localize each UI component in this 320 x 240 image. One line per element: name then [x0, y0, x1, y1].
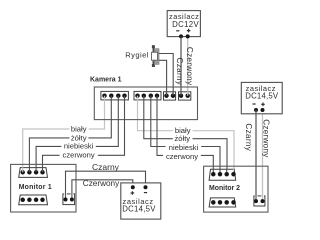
wire Rygiel bottom to camera strip3 pin1: [159, 60, 167, 95]
terminal dots S2: [135, 93, 159, 98]
terminal dots S3: [164, 93, 175, 98]
minus symbol PS2: [144, 192, 147, 194]
svg-text:Czarny: Czarny: [92, 162, 120, 172]
Monitor 1 box: [11, 164, 76, 212]
svg-text:Czerwony: Czerwony: [83, 179, 120, 188]
Monitor 2 bottom strip: [209, 198, 236, 207]
Monitor 1 top strip: [19, 168, 48, 178]
terminal strip S3 in camera (rygiel): [164, 92, 176, 100]
Monitor 1 bottom strip: [19, 195, 48, 205]
camera box Kamera 1: [94, 87, 197, 120]
wire Czarny Monitor 1 power to PS2 minus: [66, 171, 146, 199]
svg-text:niebieski: niebieski: [64, 142, 94, 151]
Monitor 2 bottom strip dots: [211, 200, 236, 205]
terminal dot PS3 plus: [261, 108, 265, 112]
svg-text:biały: biały: [71, 125, 87, 134]
svg-text:czerwony: czerwony: [63, 151, 95, 160]
Monitor 1 power strip top notches: [64, 193, 67, 196]
svg-text:DC14,5V: DC14,5V: [122, 204, 156, 213]
minus symbol PS3: [252, 103, 255, 105]
svg-text:Czarny: Czarny: [244, 123, 253, 151]
Monitor 2 power strip: [254, 196, 265, 206]
Monitor 1 power strip entry stubs: [66, 193, 72, 200]
wire stubs inside camera strips (light): [105, 91, 188, 100]
svg-text:Czerwony: Czerwony: [185, 47, 194, 86]
terminal dot PS2 plus: [131, 185, 135, 189]
svg-text:czerwony: czerwony: [166, 152, 198, 161]
svg-text:żółty: żółty: [174, 134, 190, 143]
svg-text:niebieski: niebieski: [169, 143, 199, 152]
svg-text:Monitor 1: Monitor 1: [19, 184, 52, 191]
Monitor 1 top strip dots: [20, 170, 44, 175]
terminal strip S1 in camera: [101, 91, 128, 100]
svg-text:Rygiel: Rygiel: [125, 51, 149, 60]
wire czerwony camera strip1 pin4 to Monitor 1 pin4: [43, 96, 125, 172]
svg-text:Monitor 2: Monitor 2: [209, 185, 240, 192]
wire Czerwony (light) power supply PS3 to Monitor 2 power pin2: [262, 110, 264, 201]
plus symbol PS3: [261, 103, 265, 107]
terminal dot PS3 minus: [254, 108, 258, 112]
terminal dots S1: [102, 93, 127, 98]
svg-text:Czarny: Czarny: [175, 58, 184, 86]
wire Czarny PS1 to camera strip4 pin1: [180, 37, 182, 96]
wire żółty camera strip1 pin2 to Monitor 1 pin2: [29, 96, 111, 172]
Monitor 2 top strip: [209, 169, 236, 180]
Monitor 2 power strip entry stubs: [255, 195, 257, 201]
power supply PS3 zasilacz DC14,5V right: [241, 82, 282, 113]
wire Czarny PS3 to Monitor 2 power pin1: [255, 110, 257, 201]
terminal strip S2 in camera: [134, 91, 161, 100]
power supply PS1 zasilacz DC12V: [167, 11, 200, 37]
electric strike Rygiel symbol: [152, 45, 160, 67]
Monitor 2 box: [204, 166, 268, 212]
terminal dot PS1 minus: [179, 34, 183, 38]
Monitor 2 top strip entry stubs: [213, 169, 226, 174]
terminal dot PS1 plus: [186, 34, 190, 38]
plus symbol PS1: [187, 29, 191, 33]
wire Czerwony Monitor 1 power to PS2 plus: [72, 180, 133, 199]
wire niebieski camera strip2 pin3 to Monitor 2 pin2: [151, 96, 220, 174]
wire żółty camera strip2 pin2 to Monitor 2 pin3: [144, 96, 227, 174]
wire stubs into Monitor 1 top strip: [29, 167, 42, 172]
wire czerwony camera strip2 pin4 to Monitor 2 pin1: [157, 96, 213, 174]
Monitor 2 power strip top notches: [255, 195, 258, 197]
Monitor 1 power strip: [63, 194, 75, 205]
wire stubs inside camera strips (dark): [111, 91, 181, 100]
minus symbol PS1: [176, 30, 179, 32]
wire niebieski camera strip1 pin3 to Monitor 1 pin3: [36, 96, 118, 172]
plus symbol PS2: [131, 191, 135, 195]
svg-text:Kamera 1: Kamera 1: [90, 77, 122, 84]
Monitor 2 top strip dots: [211, 172, 236, 177]
terminal strip S4 in camera (power): [179, 92, 191, 100]
wire Czerwony (light) power supply PS1 to camera strip4 pin2: [187, 37, 189, 96]
terminal dots S4: [179, 93, 190, 98]
svg-text:Czerwony: Czerwony: [261, 119, 270, 158]
wire biały (white, light) camera strip2 pin1 to Monitor 2 pin4: [138, 96, 235, 174]
Monitor 1 bottom strip dots: [20, 198, 44, 203]
Monitor 2 power strip dots: [254, 199, 265, 203]
wire biały (white, light) camera strip1 pin1 to Monitor 1 pin1: [23, 96, 105, 172]
wire Rygiel top to camera strip3 pin2: [159, 54, 173, 96]
svg-text:DC12V: DC12V: [172, 20, 199, 29]
svg-text:DC14,5V: DC14,5V: [245, 91, 279, 100]
Monitor 1 power strip dots: [64, 198, 74, 202]
power supply PS2 zasilacz DC14,5V bottom: [121, 183, 161, 219]
terminal dot PS2 minus: [144, 185, 148, 189]
